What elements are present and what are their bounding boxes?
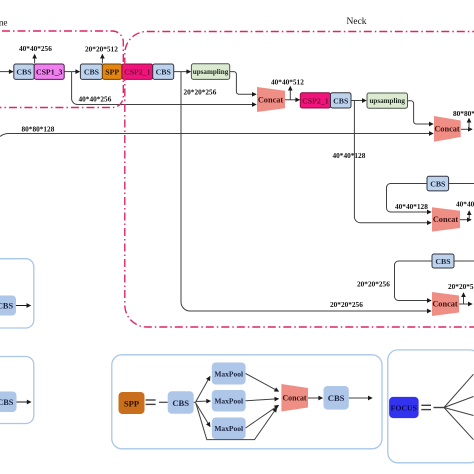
svg-text:40*40*128: 40*40*128 xyxy=(333,151,366,160)
arrow up from CSP1_3 xyxy=(34,55,36,64)
svg-text:Concat: Concat xyxy=(282,394,306,403)
arrow MaxPool3 to Concat5 xyxy=(246,405,279,428)
legend box 2 (cut at left) xyxy=(0,357,34,424)
legend CBS block after Concat5 xyxy=(324,386,349,410)
wire 40*40*128 branch down to Concat3 bottom input xyxy=(354,101,431,223)
svg-text:40*40*128: 40*40*128 xyxy=(395,202,428,211)
svg-text:CBS: CBS xyxy=(84,68,99,77)
svg-text:20*20*512: 20*20*512 xyxy=(85,45,118,54)
svg-text:Concat: Concat xyxy=(432,300,458,309)
arrow up from Concat2 output wire xyxy=(468,119,470,130)
svg-text:FOCUS: FOCUS xyxy=(391,403,417,412)
fan line 4 xyxy=(444,408,474,440)
svg-text:20*20*512: 20*20*512 xyxy=(448,282,474,291)
fan line 2 xyxy=(444,397,474,408)
wire CBS3 to upsampling1 xyxy=(174,71,191,73)
arrow up from Concat1 output wire xyxy=(289,87,291,100)
svg-text:CBS: CBS xyxy=(333,96,348,105)
wire 80*80*128 long line to Concat2 bottom input xyxy=(0,134,433,137)
arrow MaxPool1 to Concat5 xyxy=(246,374,279,392)
wire skip 40*40*256 down from CSP1_3 output to Concat1 bottom input xyxy=(72,72,256,105)
svg-text:CBS: CBS xyxy=(0,302,13,311)
block upsampling1 xyxy=(191,64,229,80)
wire CBS6 loop to Concat4 top input xyxy=(395,261,433,301)
svg-text:CBS: CBS xyxy=(328,393,345,403)
wire Concat2 output xyxy=(461,128,472,130)
legend box1 arrow xyxy=(16,305,31,307)
wire skip CBS to Concat5 around bottom xyxy=(196,402,277,439)
svg-text:40*40*256: 40*40*256 xyxy=(79,95,112,104)
block Concat5 trapezoid xyxy=(281,384,308,412)
wire CBS5 loop to Concat3 top input xyxy=(387,184,432,213)
svg-text:CSP2_1: CSP2_1 xyxy=(124,68,151,77)
arrow out of legend CBS xyxy=(349,397,372,399)
svg-text:80*80*128: 80*80*128 xyxy=(22,125,55,134)
neck dashed box xyxy=(125,32,474,328)
wire Concat3 output xyxy=(460,219,471,221)
wire equals to CBS xyxy=(159,401,168,403)
block CBS2 xyxy=(80,64,102,79)
wire Concat1 to CSP2_1b xyxy=(285,99,299,101)
wire CBS4 to upsampling2 xyxy=(351,100,366,102)
arrow Concat5 to legend CBS xyxy=(308,397,322,399)
svg-text:Concat: Concat xyxy=(433,215,459,224)
block Concat1 trapezoid xyxy=(257,87,285,112)
wire into CBS5 from right edge xyxy=(449,183,474,185)
legend FOCUS block xyxy=(389,397,419,418)
svg-text:20*20*256: 20*20*256 xyxy=(184,88,217,97)
legend SPP box xyxy=(112,355,382,449)
block CBS6 xyxy=(432,254,454,268)
svg-text:MaxPool: MaxPool xyxy=(214,424,243,433)
legend box2 CBS block xyxy=(0,392,17,413)
block CSP2_1b xyxy=(300,93,330,108)
svg-text:CSP2_1: CSP2_1 xyxy=(302,96,329,105)
arrow junction to MaxPool1 xyxy=(196,377,210,403)
wire Concat4 output xyxy=(459,303,472,305)
block Concat4 trapezoid xyxy=(432,292,459,316)
legend FOCUS box xyxy=(388,350,474,463)
arrow MaxPool2 to Concat5 xyxy=(246,399,279,401)
svg-text:20*20*256: 20*20*256 xyxy=(357,280,390,289)
legend CBS block (SPP box) xyxy=(168,391,194,413)
svg-text:CBS: CBS xyxy=(0,398,14,407)
wire 20*20*256 branch down to Concat4 bottom input xyxy=(181,72,431,311)
block CBS1 xyxy=(14,64,34,79)
block Concat3 trapezoid xyxy=(432,207,460,231)
svg-text:40*40*256: 40*40*256 xyxy=(19,44,52,53)
svg-text:Concat: Concat xyxy=(434,125,460,134)
svg-text:CBS: CBS xyxy=(172,398,189,408)
block MaxPool3 xyxy=(212,418,246,440)
svg-text:40*40*512: 40*40*512 xyxy=(271,78,304,87)
block CBS3 xyxy=(153,64,174,79)
arrow up from Concat4 output wire xyxy=(463,293,465,304)
legend box1 CBS block xyxy=(0,296,16,316)
block CBS5 xyxy=(427,176,449,191)
arrow junction to MaxPool3 xyxy=(196,403,210,427)
block SPP xyxy=(102,64,122,79)
svg-text:CBS: CBS xyxy=(156,68,171,77)
legend box 1 (cut at left) xyxy=(0,259,34,328)
wire CSP1_3 to CBS2 xyxy=(64,71,79,73)
backbone dashed box xyxy=(0,31,123,108)
block MaxPool2 xyxy=(212,390,246,412)
block upsampling2 xyxy=(367,93,408,108)
wire into CBS6 from right edge xyxy=(454,260,474,262)
wire FOCUS equals to fan point xyxy=(434,407,445,409)
fan line 3 xyxy=(444,408,474,416)
svg-text:CBS: CBS xyxy=(435,257,450,266)
legend SPP block xyxy=(119,392,145,414)
arrow up from Concat3 output wire xyxy=(468,211,470,219)
svg-text:upsampling: upsampling xyxy=(193,68,229,76)
svg-text:MaxPool: MaxPool xyxy=(214,370,243,379)
block CSP2_1 (backbone) xyxy=(122,64,153,79)
block CSP1_3 xyxy=(34,64,64,79)
svg-text:Backbone: Backbone xyxy=(0,17,8,27)
svg-text:CSP1_3: CSP1_3 xyxy=(36,68,63,77)
wire upsampling2 elbow to Concat2 top input xyxy=(408,101,434,124)
legend box2 arrow xyxy=(17,401,31,403)
wire input arrow into CBS1 xyxy=(0,71,13,73)
svg-text:80*80*256: 80*80*256 xyxy=(453,109,474,118)
svg-text:Concat: Concat xyxy=(258,95,284,104)
svg-text:upsampling: upsampling xyxy=(369,97,405,105)
equals sign FOCUS xyxy=(421,404,431,406)
svg-text:SPP: SPP xyxy=(124,399,139,409)
wire upsampling1 elbow to Concat1 top input xyxy=(230,72,256,95)
svg-text:CBS: CBS xyxy=(16,68,31,77)
svg-text:SPP: SPP xyxy=(105,68,119,77)
fan line 1 xyxy=(444,374,474,407)
block MaxPool1 xyxy=(212,363,246,385)
svg-text:MaxPool: MaxPool xyxy=(214,397,243,406)
block Concat2 trapezoid xyxy=(434,116,461,142)
svg-text:40*40*256: 40*40*256 xyxy=(456,200,474,209)
arrow junction to MaxPool2 xyxy=(196,400,211,403)
svg-text:CBS: CBS xyxy=(430,180,445,189)
svg-text:20*20*256: 20*20*256 xyxy=(330,300,363,309)
block CBS4 xyxy=(331,93,352,108)
arrow up from SPP xyxy=(101,55,103,64)
svg-text:Neck: Neck xyxy=(347,17,367,27)
equals sign SPP xyxy=(146,399,156,401)
wire CBS to junction xyxy=(194,401,196,403)
